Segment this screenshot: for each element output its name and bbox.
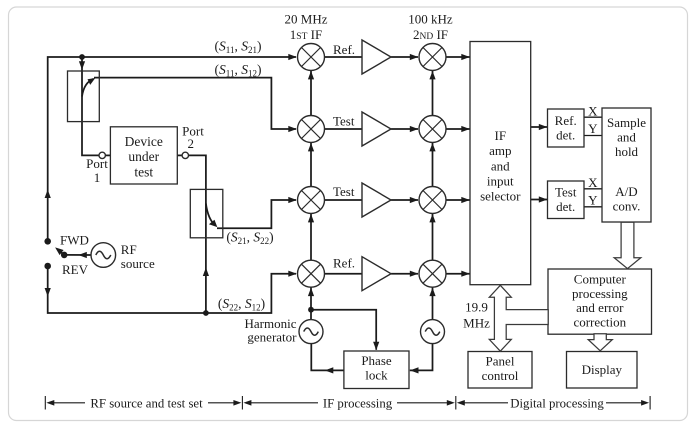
wire: DUT to Port2 circle [177,154,182,156]
coupler2 curve arrowhead [209,220,217,227]
up arrow below coupler2 [203,268,209,277]
wire: mixer2 R4 to IF box [446,273,470,275]
coupler box 2 [190,189,223,237]
coupler box 1 [68,71,100,122]
svg-text:Test: Test [555,185,577,200]
wire: LO column1 mixer R2 to R1 [310,71,312,116]
wire: Ref det X line [584,116,602,118]
wire: phase lock to harmonic generator [311,344,344,371]
arrow into mixer R2 [288,126,297,132]
wire: bottom rail and REV drop, jog up to mixer R4 [48,266,296,313]
svg-text:Port: Port [86,156,108,171]
wire: amp3 to mixer2 R3 [391,199,418,201]
wire: LO column2 osc up to mixer2 R4 [432,287,434,319]
svg-text:2: 2 [187,136,194,151]
arrow into phase lock top [373,342,379,351]
svg-text:1ST IF: 1ST IF [290,27,322,42]
wire: LO column1 mixer R3 to R2 [310,143,312,187]
svg-text:Y: Y [588,193,598,208]
svg-text:Digital processing: Digital processing [510,396,604,410]
wire: LO column2 mixer2 R3 to R2 [432,143,434,187]
svg-text:X: X [588,104,598,119]
wire: Test det Y line [584,206,602,208]
Panel control box [468,352,532,389]
dim arrow right RF [233,400,241,406]
svg-text:19.9: 19.9 [465,300,488,315]
wire: mixer2 R2 to IF box [446,128,470,130]
coupler1 coupled curve [82,79,94,97]
mixer M1 (1st IF, Ref) [298,44,325,71]
hollow arrow Computer box to Display [588,334,612,351]
wire: RF source to switch pivot [64,254,91,256]
svg-text:and: and [617,130,636,145]
svg-text:Ref.: Ref. [555,113,577,128]
dimension line IF section [249,402,318,404]
junction dot top line [79,54,85,60]
mixer M2 (1st IF, Test) [298,116,325,143]
switch FWD contact dot [44,238,51,245]
Display box [567,352,638,389]
wire: Port1 circle to DUT [106,154,111,156]
svg-text:input: input [487,174,514,189]
LO arrow into mixer2 R2 bottom [429,143,435,152]
Sample and hold / A-D box [602,108,651,222]
wire: mixer2 R3 to IF box [446,199,470,201]
svg-text:Display: Display [582,362,623,377]
svg-text:A/D: A/D [615,184,637,199]
svg-text:(S11, S12): (S11, S12) [215,62,262,79]
mixer M5 (2nd IF row1) [419,44,446,71]
arrow into mixer2 R2 [410,126,419,132]
svg-text:MHz: MHz [463,316,490,331]
left arrow on RF source feed [78,252,87,258]
wire: LO column1 mixer R4 to R3 [310,214,312,261]
svg-text:conv.: conv. [613,199,641,214]
Computer processing box [548,269,652,334]
svg-text:processing: processing [572,286,628,301]
arrow into IF box row2 [461,126,470,132]
wire: Port2 down through coupler2 to bottom rail [189,155,206,313]
DUT box [110,127,177,184]
switch REV contact dot [44,263,51,270]
svg-text:and error: and error [576,300,624,315]
svg-text:generator: generator [247,330,297,345]
wire: mixer R3 to amp3 [325,199,363,201]
dimension line Digital section [463,402,509,404]
svg-text:(S22, S12): (S22, S12) [218,296,265,313]
svg-text:IF: IF [495,128,507,143]
arrow into mixer2 R4 [410,271,419,277]
svg-text:1: 1 [94,170,101,185]
svg-text:100 kHz: 100 kHz [408,12,453,27]
dim arrow right Digital [641,400,649,406]
svg-text:(S11, S21): (S11, S21) [215,39,262,56]
junction dot LO column1 [308,307,314,313]
wire: coupler1 drop to Port 1 [82,57,99,155]
svg-text:source: source [121,256,155,271]
wire: Ref det Y line [584,135,602,137]
switch arm arrowhead [55,247,64,255]
amplifier A1 [362,40,391,74]
Test det box [548,181,585,219]
svg-text:lock: lock [365,368,388,383]
arrow into mixer R4 [288,271,297,277]
Phase lock box [344,351,409,389]
arrow into IF box row1 [461,54,470,60]
up arrow on left vertical line [45,190,51,199]
wire: mixer R2 to amp2 [325,128,363,130]
svg-text:Panel: Panel [486,354,515,369]
svg-text:X: X [588,175,598,190]
2nd LO oscillator [421,320,445,344]
down arrow on REV drop [45,288,51,297]
dim arrow left RF [46,400,54,406]
wire: Test det X line [584,188,602,190]
svg-text:REV: REV [62,262,89,277]
svg-text:control: control [482,368,519,383]
mixer M7 (2nd IF row3) [419,187,446,214]
svg-text:Ref.: Ref. [333,256,355,271]
wire: left vertical FWD feed [48,57,296,241]
harmonic generator oscillator [299,320,323,344]
svg-text:Device: Device [125,134,163,149]
svg-text:20 MHz: 20 MHz [285,12,328,27]
wire: mixer R4 to amp4 [325,273,363,275]
svg-text:Test: Test [333,114,355,129]
wire: amp2 to mixer2 R2 [391,128,418,130]
junction dot bottom rail [203,310,209,316]
LO arrow into mixer R4 bottom [308,288,314,297]
amplifier A4 [362,257,391,291]
mixer M6 (2nd IF row2) [419,116,446,143]
svg-text:(S21, S22): (S21, S22) [226,230,273,247]
wire: S21,S22 coupled line to mixer R3 [217,200,296,228]
hollow arrow A/D to Computer box [614,222,641,268]
arrow into mixer R3 [288,197,297,203]
wire: LO column2 mixer2 R4 to R3 [432,214,434,261]
svg-text:2ND IF: 2ND IF [413,27,448,42]
LO arrow into mixer2 R1 bottom [429,71,435,80]
mixer M3 (1st IF, Test) [298,187,325,214]
Port 2 terminal circle [182,152,188,158]
dim arrow left Digital [457,400,465,406]
RF source oscillator [91,243,116,268]
svg-text:and: and [491,158,510,173]
switch pivot dot [61,252,68,259]
amplifier A3 [362,183,391,217]
amplifier A2 [362,112,391,146]
left arrow phase lock to harmonic gen [325,367,334,373]
arrow into Ref det [539,124,548,130]
dim arrow right IF [447,400,455,406]
arrow into mixer R1 [288,54,297,60]
svg-text:hold: hold [615,144,639,159]
wire: mixer2 R1 to IF box [446,56,470,58]
wire: IF box to Ref det [531,126,547,128]
wire: LO column2 mixer2 R2 to R1 [432,71,434,116]
svg-text:Sample: Sample [607,115,646,130]
dimension tick 1 [44,396,46,410]
arrow into Test det [539,196,548,202]
svg-text:FWD: FWD [60,233,89,248]
svg-text:amp: amp [489,143,511,158]
arrow into mixer2 R1 [410,54,419,60]
wire: amp4 to mixer2 R4 [391,273,418,275]
svg-text:det.: det. [556,128,575,143]
LO arrow into mixer2 R4 bottom [429,288,435,297]
svg-text:correction: correction [573,314,626,329]
svg-text:RF source and test set: RF source and test set [90,396,203,410]
left arrow osc2 into phase lock [410,367,419,373]
wire: switch arm [60,251,64,255]
dimension tick 2 [241,396,243,410]
LO arrow into mixer R3 bottom [308,214,314,223]
LO arrow into mixer R2 bottom [308,143,314,152]
down arrow into coupler1 [79,61,85,70]
svg-text:Phase: Phase [361,353,392,368]
LO arrow into mixer R1 bottom [308,71,314,80]
arrow into mixer2 R3 [410,197,419,203]
arrow into IF box row3 [461,197,470,203]
wire: LO junction to phase lock top [311,310,376,350]
coupler1 curve arrowhead [88,78,96,85]
svg-text:RF: RF [121,242,137,257]
mixer M4 (1st IF, Ref) [298,260,325,287]
dim arrow left IF [243,400,251,406]
dimension line RF section [52,402,85,404]
arrow into IF box row4 [461,271,470,277]
svg-text:IF processing: IF processing [323,396,393,410]
wire: mixer R1 to amp1 [325,56,363,58]
coupler2 coupled curve [206,204,216,226]
wire: LO column1 harmonic gen up to mixer R4 [310,287,312,319]
svg-text:Test: Test [333,184,355,199]
svg-text:det.: det. [556,199,575,214]
wire: IF box to Test det [531,199,547,201]
svg-text:test: test [134,164,153,179]
svg-text:selector: selector [480,189,521,204]
hollow double arrow IF box to Panel control with T stub from Computer box [489,285,548,351]
svg-text:Y: Y [588,121,598,136]
wire: S11,S12 coupled line to mixer R2 [94,78,296,129]
IF amp box [470,42,531,285]
svg-text:Computer: Computer [574,272,627,287]
svg-text:under: under [128,149,159,164]
LO arrow into mixer2 R3 bottom [429,214,435,223]
dimension tick 3 [455,396,457,410]
wire: 2nd osc to phase lock [410,344,433,371]
mixer M8 (2nd IF row4) [419,260,446,287]
wire: amp1 to mixer2 R1 [391,56,418,58]
dimension tick 4 [649,396,651,410]
svg-text:Ref.: Ref. [333,42,355,57]
Ref det box [548,109,585,147]
Port 1 terminal circle [99,152,105,158]
